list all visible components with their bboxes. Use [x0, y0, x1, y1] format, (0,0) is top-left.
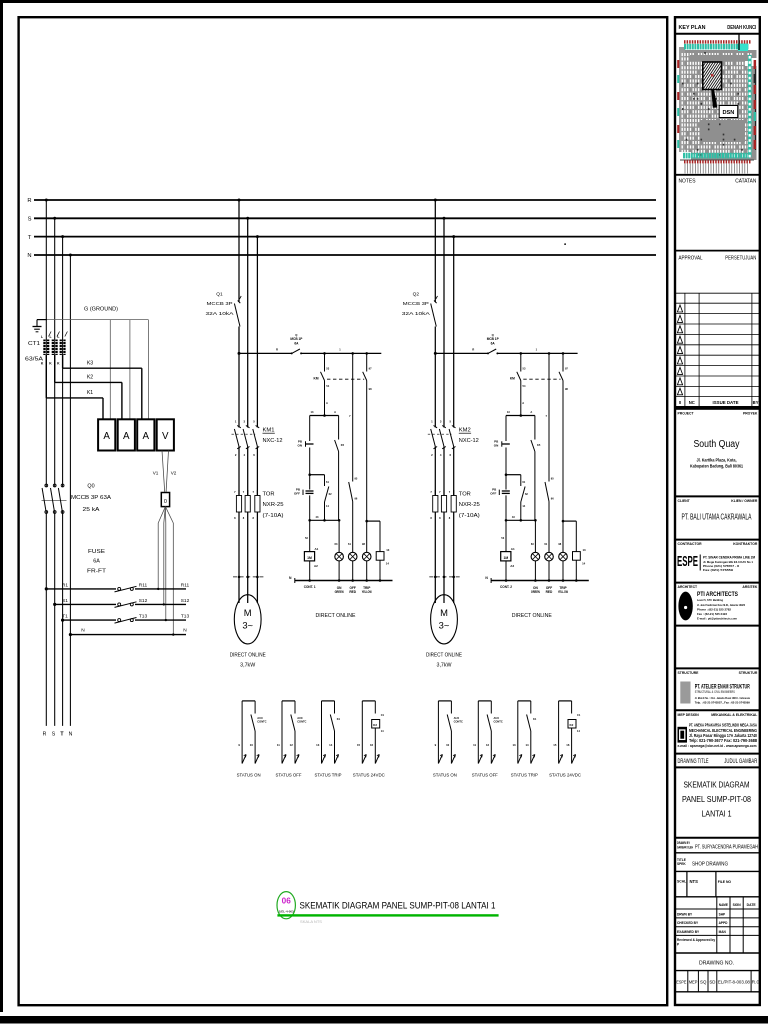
motor M1	[234, 595, 261, 644]
circuit breaker Q2	[431, 296, 438, 327]
KM1 aux contact A	[314, 353, 330, 415]
power wire 2-R upper	[434, 200, 436, 302]
svg-text:MEKANIKAL & ELEKTRIKAL: MEKANIKAL & ELEKTRIKAL	[711, 713, 757, 717]
key plan teal band top	[684, 44, 748, 52]
label CT1 63/5A	[25, 341, 44, 363]
svg-text:CONT. 2: CONT. 2	[500, 585, 512, 589]
svg-text:ISSUE DATE: ISSUE DATE	[713, 400, 739, 405]
svg-text:OFF: OFF	[294, 491, 300, 495]
control branch bar lower 1	[308, 515, 340, 522]
wire V2	[166, 451, 177, 492]
svg-text:0: 0	[164, 499, 167, 505]
svg-text:3,7kW: 3,7kW	[437, 662, 452, 668]
svg-text:PTI ARCHITECTS: PTI ARCHITECTS	[697, 591, 739, 598]
svg-text:FR-FT: FR-FT	[87, 569, 107, 575]
svg-text:EL/PIT-8-003.08: EL/PIT-8-003.08	[718, 980, 751, 985]
svg-text:13: 13	[583, 548, 587, 552]
svg-text:DRAWING TITLE: DRAWING TITLE	[678, 759, 709, 765]
svg-text:SHP: SHP	[719, 912, 726, 916]
svg-text:DIRECT ONLINE: DIRECT ONLINE	[512, 613, 552, 619]
ground drop to ammeter A3	[147, 320, 149, 420]
svg-text:NC: NC	[689, 400, 695, 405]
label KM2 NXC-12	[459, 428, 479, 444]
status contact STATUS 24VDC circuit 2	[549, 701, 581, 778]
svg-text:R1: R1	[62, 582, 68, 588]
ground drop to ammeter A1	[109, 320, 111, 420]
svg-text:BY: BY	[753, 400, 759, 405]
contactor KM2 pole S	[439, 419, 445, 457]
svg-text:Jl. Kartika Plaza, Kuta,: Jl. Kartika Plaza, Kuta,	[697, 458, 737, 463]
svg-text:NXC-12: NXC-12	[263, 438, 283, 444]
tap circuit 1 phase S	[246, 217, 249, 220]
svg-text:10: 10	[446, 743, 450, 747]
svg-text:A: A	[103, 431, 110, 442]
ammeter A2	[118, 419, 135, 450]
svg-text:CHECKED BY: CHECKED BY	[677, 921, 699, 925]
revision table legend row	[679, 400, 759, 405]
svg-text:Level 5, STC Building: Level 5, STC Building	[697, 598, 723, 602]
key plan road line	[738, 35, 740, 51]
svg-text:PROJECT: PROJECT	[678, 412, 695, 416]
svg-text:e-mail : apsmega@cbn.net.id -: e-mail : apsmega@cbn.net.id - www.apsmeg…	[678, 744, 757, 748]
KM1 aux linkage dashes	[327, 378, 364, 380]
svg-text:K1: K1	[337, 717, 341, 721]
svg-text:R.0: R.0	[752, 980, 760, 985]
feeder S wire	[54, 218, 56, 726]
svg-text:14: 14	[525, 743, 529, 747]
tap circuit 1 phase T	[256, 235, 259, 238]
aux terminal box 1	[376, 548, 390, 581]
label Q1 MCCB 3P 32A 10kA	[206, 291, 235, 317]
svg-text:DIRECT ONLINE: DIRECT ONLINE	[426, 653, 463, 659]
svg-text:15: 15	[357, 743, 361, 747]
svg-text:PROYEK: PROYEK	[743, 412, 758, 416]
svg-text:DENAH KUNCI: DENAH KUNCI	[727, 25, 756, 31]
contactor coil KM1	[304, 520, 318, 580]
trip lamp branch bar 2	[562, 520, 577, 552]
push button ON 2	[494, 416, 510, 475]
svg-text:PERSETUJUAN: PERSETUJUAN	[725, 256, 756, 262]
trip lamp branch bar 1	[365, 520, 380, 552]
svg-text:K2: K2	[373, 723, 377, 727]
motor terminal marks 2	[429, 576, 459, 603]
svg-text:GREEN: GREEN	[531, 590, 541, 594]
svg-text:MEP: MEP	[689, 980, 698, 985]
contactor coil KM2	[501, 520, 515, 580]
seal-in elbow 1	[308, 473, 332, 520]
svg-text:AUX: AUX	[297, 716, 303, 720]
svg-text:13: 13	[386, 548, 390, 552]
trip contact wire 1	[349, 353, 358, 552]
svg-text:EXAMINED BY: EXAMINED BY	[677, 930, 700, 934]
svg-text:STATUS 24VDC: STATUS 24VDC	[353, 772, 385, 777]
feeder bottom labels R S T N	[43, 732, 73, 738]
svg-text:ESPE: ESPE	[677, 554, 698, 570]
label Q0 MCCB 3P 63A 25kA	[71, 484, 111, 514]
key plan left edge marks	[677, 60, 679, 148]
label DIRECT ONLINE 3,7kW motor 2	[426, 653, 463, 669]
indicator lamp ON 2	[531, 520, 540, 580]
svg-text:ON: ON	[494, 444, 499, 448]
contactor KM2 linkage dashes	[428, 433, 452, 435]
control branch bar upper 2	[506, 410, 535, 417]
bus N	[34, 254, 656, 256]
control MCB 2	[487, 333, 500, 355]
svg-text:MCCB 3P: MCCB 3P	[403, 301, 429, 307]
scale row	[675, 871, 760, 896]
svg-text:(7-10A): (7-10A)	[459, 513, 480, 519]
project section	[678, 412, 758, 469]
svg-text:N: N	[27, 253, 31, 259]
svg-text:10: 10	[250, 743, 254, 747]
svg-text:A1: A1	[315, 547, 319, 551]
label KM1 NXC-12	[263, 428, 283, 444]
push button OFF 2	[490, 475, 510, 521]
KM2 aux contact D	[559, 353, 568, 521]
svg-text:K2: K2	[569, 723, 573, 727]
svg-text:N: N	[69, 732, 73, 738]
project section separator bar	[674, 406, 761, 409]
svg-text:25 kA: 25 kA	[83, 507, 100, 513]
wire V1	[153, 451, 165, 492]
thermal overload TOR 1	[234, 490, 260, 520]
structure section (Atelier Enam)	[675, 668, 760, 704]
svg-text:FUSE: FUSE	[88, 549, 105, 555]
voltmeter V	[157, 419, 174, 450]
svg-text:Fax : (62-21) 525 2423: Fax : (62-21) 525 2423	[697, 612, 727, 616]
aux contact K branch 1	[335, 416, 345, 521]
ammeter A1	[98, 419, 115, 450]
control neutral bus 2	[485, 576, 588, 583]
svg-text:ESPE: ESPE	[676, 980, 686, 985]
svg-text:T: T	[28, 235, 32, 241]
svg-text:M: M	[440, 607, 448, 618]
svg-text:32A 10kA: 32A 10kA	[402, 311, 431, 317]
svg-text:N: N	[183, 628, 187, 634]
svg-text:63/5A: 63/5A	[25, 357, 44, 363]
svg-text:KLIEN / OWNER: KLIEN / OWNER	[731, 499, 758, 503]
svg-text:K5: K5	[341, 443, 345, 447]
shop drawing row	[675, 853, 760, 868]
svg-text:APPROVAL: APPROVAL	[679, 256, 703, 262]
svg-text:PT. BALI UTAMA CAKRAWALA: PT. BALI UTAMA CAKRAWALA	[682, 513, 752, 522]
drawn-by row	[675, 838, 760, 851]
svg-text:3~: 3~	[242, 620, 253, 631]
svg-text:S12: S12	[181, 598, 190, 604]
svg-text:Q2: Q2	[413, 291, 420, 297]
svg-text:A: A	[143, 431, 150, 442]
svg-text:1M: 1M	[307, 556, 312, 560]
svg-text:6A: 6A	[294, 342, 299, 346]
KM2 aux contact A	[510, 353, 526, 415]
power wire 1-R mid	[238, 327, 240, 428]
svg-text:32A 10kA: 32A 10kA	[206, 311, 235, 317]
svg-text:DRAWN BY: DRAWN BY	[677, 841, 691, 845]
svg-text:K1: K1	[533, 717, 537, 721]
bus T	[34, 236, 656, 238]
key plan right edge marks	[754, 60, 756, 149]
svg-text:SIGN: SIGN	[733, 903, 742, 907]
drawing label green underline	[277, 914, 498, 916]
stray mark	[564, 243, 566, 245]
title block outer border	[675, 17, 760, 1005]
empty consultant box	[675, 625, 760, 627]
MEP consultant section	[675, 710, 760, 748]
svg-text:12: 12	[486, 743, 490, 747]
current transformer CT1 phase S	[49, 332, 59, 366]
aux terminal box 2	[573, 548, 587, 581]
svg-text:A: A	[123, 431, 130, 442]
neutral wire N	[69, 628, 187, 637]
svg-text:DATE: DATE	[747, 903, 757, 907]
svg-text:STATUS OFF: STATUS OFF	[472, 772, 498, 777]
svg-text:L: L	[49, 335, 51, 339]
control branch bar lower 2	[505, 515, 537, 522]
svg-text:K1: K1	[87, 390, 93, 396]
svg-text:CONT. 1: CONT. 1	[304, 585, 316, 589]
svg-text:SKEMATIK DIAGRAM: SKEMATIK DIAGRAM	[684, 781, 750, 790]
svg-text:A2: A2	[510, 564, 514, 568]
svg-text:ARSITEK: ARSITEK	[742, 585, 757, 589]
svg-text:NXC-12: NXC-12	[459, 438, 479, 444]
svg-text:STRUCTURAL & CIVIL ENGINEERS: STRUCTURAL & CIVIL ENGINEERS	[695, 690, 735, 694]
svg-text:MCCB 3P: MCCB 3P	[207, 301, 233, 307]
svg-text:16: 16	[370, 743, 374, 747]
svg-text:KM1: KM1	[263, 428, 275, 434]
svg-text:MCB 1P: MCB 1P	[487, 337, 500, 341]
title block KEY PLAN header row	[675, 33, 760, 35]
svg-text:A: A	[326, 401, 328, 405]
svg-text:R11: R11	[181, 582, 190, 588]
svg-text:R: R	[276, 348, 278, 352]
control neutral bus 1	[289, 576, 392, 583]
status contact STATUS TRIP circuit 2	[511, 701, 538, 778]
selector fan wires	[157, 507, 175, 636]
contractor section (ESPE)	[675, 540, 760, 572]
svg-text:APPD: APPD	[719, 921, 729, 925]
svg-text:T13: T13	[181, 614, 190, 620]
page left scan edge	[0, 0, 3, 1012]
svg-text:Kabupaten Badung, Bali 80361: Kabupaten Badung, Bali 80361	[690, 464, 743, 469]
svg-text:G (GROUND): G (GROUND)	[84, 307, 118, 313]
svg-text:RED: RED	[349, 590, 356, 594]
control wire 2 top	[434, 348, 578, 355]
svg-text:MCCB 3P 63A: MCCB 3P 63A	[71, 495, 111, 501]
power wires 2 to motor	[435, 512, 453, 577]
svg-text:STATUS TRIP: STATUS TRIP	[315, 772, 342, 777]
svg-text:NOTES: NOTES	[679, 178, 696, 184]
power wire 2-S upper	[443, 218, 445, 427]
indicator lamp TRIP 1	[362, 521, 371, 580]
status contact STATUS TRIP circuit 1	[315, 701, 342, 778]
motor terminal marks 1	[233, 576, 263, 603]
svg-text:LANTAI 1: LANTAI 1	[702, 810, 732, 819]
drawing title header row	[675, 754, 760, 766]
svg-text:CONTC: CONTC	[297, 720, 306, 724]
svg-text:15: 15	[553, 743, 557, 747]
svg-text:Fax (021) 576559: Fax (021) 576559	[703, 568, 733, 572]
thermal overload TOR 2	[430, 490, 456, 520]
indicator lamp ON 1	[335, 520, 344, 580]
svg-text:R: R	[27, 198, 31, 204]
circuit breaker Q1	[234, 296, 241, 327]
wire K2	[55, 355, 122, 419]
status contact STATUS OFF circuit 1	[276, 701, 307, 778]
svg-text:GAMBAR OLEH: GAMBAR OLEH	[677, 846, 693, 850]
label TOR NXR-25 (7-10A) 2	[459, 491, 480, 519]
svg-text:A: A	[530, 410, 532, 414]
svg-text:TOR: TOR	[263, 491, 275, 497]
svg-text:T13: T13	[139, 614, 148, 620]
svg-text:CATATAN: CATATAN	[735, 178, 756, 184]
svg-text:S1: S1	[62, 598, 68, 604]
svg-text:MCB 1P: MCB 1P	[290, 337, 303, 341]
svg-text:A: A	[522, 401, 524, 405]
circuit breaker Q0 pole R	[42, 484, 48, 513]
svg-text:NXR-25: NXR-25	[263, 502, 284, 508]
svg-text:KEY PLAN: KEY PLAN	[679, 25, 706, 31]
svg-text:3~: 3~	[439, 620, 450, 631]
svg-text:S: S	[28, 217, 32, 223]
svg-text:CONTC: CONTC	[257, 720, 266, 724]
current transformer CT1 phase R	[41, 332, 51, 366]
svg-text:(7-10A): (7-10A)	[263, 513, 284, 519]
power wires 2 between contactor and overload	[435, 447, 453, 496]
status contact STATUS OFF circuit 2	[472, 701, 503, 778]
svg-text:6A: 6A	[93, 559, 100, 565]
svg-text:CONTC: CONTC	[494, 720, 503, 724]
contactor KM1 linkage dashes	[232, 433, 256, 435]
power wire 1-T upper	[256, 237, 258, 428]
ground bus wire	[37, 319, 47, 321]
key plan site map	[679, 47, 757, 160]
svg-text:M: M	[244, 607, 252, 618]
svg-text:6A: 6A	[491, 342, 496, 346]
indicator lamp OFF 1	[348, 542, 357, 581]
svg-text:ON: ON	[298, 444, 303, 448]
svg-text:K2: K2	[87, 375, 93, 381]
svg-text:SPEK: SPEK	[677, 862, 686, 866]
aux contact K branch 2	[531, 416, 541, 521]
ground symbol	[33, 320, 42, 332]
contactor KM1 pole T	[253, 419, 259, 457]
tap circuit 2 phase T	[452, 235, 455, 238]
power wire 2-R mid	[434, 327, 436, 428]
svg-text:Q1: Q1	[216, 291, 223, 297]
svg-text:SD: SD	[709, 980, 715, 985]
key plan red dot row top	[684, 40, 751, 43]
ammeter A3	[137, 419, 154, 450]
svg-text:KONTRAKTOR: KONTRAKTOR	[733, 542, 758, 546]
indicator lamp TRIP 2	[558, 521, 567, 580]
svg-text:3,7kW: 3,7kW	[240, 662, 255, 668]
tap circuit 1 phase R	[238, 199, 241, 202]
svg-text:K3: K3	[87, 360, 93, 366]
key plan DSN label box	[719, 106, 738, 118]
svg-text:YELLOW: YELLOW	[558, 590, 568, 594]
drawing label bubble 06	[277, 892, 295, 919]
svg-text:14: 14	[386, 561, 390, 565]
wire K3	[63, 355, 142, 419]
label FUSE 6A FR-FT	[87, 549, 107, 575]
status contact STATUS ON circuit 1	[237, 701, 267, 778]
feeder R wire	[45, 200, 47, 726]
svg-text:SKEMATIK DIAGRAM PANEL SUMP-PI: SKEMATIK DIAGRAM PANEL SUMP-PIT-08 LANTA…	[300, 901, 496, 912]
key plan locator arrow	[711, 89, 717, 108]
tap circuit 2 phase R	[434, 199, 437, 202]
svg-text:RED: RED	[546, 590, 553, 594]
svg-text:TITLE: TITLE	[677, 858, 686, 862]
svg-text:T1: T1	[62, 614, 68, 620]
svg-text:Telp: 021-790-3677 Fax: 021-79: Telp: 021-790-3677 Fax: 021-790-3688	[689, 738, 757, 743]
control bottom labels 1	[304, 585, 372, 594]
push button ON 1	[298, 416, 314, 475]
svg-text:06: 06	[282, 896, 292, 905]
client section	[675, 496, 760, 521]
circuit breaker Q0 pole S	[51, 484, 57, 513]
svg-text:R: R	[472, 348, 474, 352]
svg-text:FILE NO: FILE NO	[718, 880, 732, 884]
drawing number code row	[675, 971, 760, 992]
control bottom labels 2	[500, 585, 568, 594]
feeder T wire	[62, 237, 64, 726]
svg-text:NAME: NAME	[719, 903, 729, 907]
contactor KM2 pole R	[431, 419, 437, 457]
indicator lamp OFF 2	[544, 542, 553, 581]
wire K1	[46, 355, 103, 419]
contactor KM2 pole T	[449, 419, 455, 457]
svg-text:V2: V2	[171, 471, 177, 476]
svg-text:STATUS OFF: STATUS OFF	[276, 772, 302, 777]
control branch bar upper 1	[310, 410, 339, 417]
svg-text:KM: KM	[314, 376, 319, 380]
bus S	[34, 217, 656, 219]
svg-text:AUX: AUX	[494, 716, 500, 720]
power wire 1-S upper	[247, 218, 249, 427]
svg-text:C1: C1	[381, 713, 385, 717]
svg-text:CT1: CT1	[28, 341, 40, 347]
svg-text:DIRECT ONLINE: DIRECT ONLINE	[316, 613, 356, 619]
svg-text:1/EL-4-003: 1/EL-4-003	[279, 909, 294, 913]
status contact STATUS ON circuit 2	[433, 701, 463, 778]
circuit breaker Q0 pole T	[58, 484, 64, 513]
svg-text:13: 13	[512, 743, 516, 747]
power wires 1 between contactor and overload	[239, 447, 257, 496]
svg-text:South Quay: South Quay	[694, 439, 740, 450]
key plan teal band bottom	[683, 153, 750, 159]
signature table	[675, 897, 760, 953]
svg-text:OFF: OFF	[490, 491, 496, 495]
motor M2	[431, 595, 458, 644]
svg-text:SQ: SQ	[700, 980, 707, 985]
svg-text:MAN: MAN	[719, 930, 727, 934]
svg-text:R: R	[43, 732, 47, 738]
contactor KM1 pole S	[243, 419, 249, 457]
label TOR NXR-25 (7-10A) 1	[263, 491, 284, 519]
KM2 aux linkage dashes	[523, 378, 560, 380]
svg-text:S12: S12	[139, 598, 148, 604]
svg-text:CONTRACTOR: CONTRACTOR	[678, 542, 703, 546]
revision table	[675, 293, 760, 406]
power wire 1-R upper	[238, 200, 240, 302]
current transformer CT1 phase T	[57, 332, 67, 366]
svg-text:L: L	[41, 335, 43, 339]
bus R	[34, 199, 656, 201]
voltmeter selector switch	[161, 493, 169, 507]
svg-text:AUX: AUX	[454, 716, 460, 720]
seal-in elbow 2	[505, 473, 529, 520]
svg-text:V: V	[162, 431, 169, 442]
